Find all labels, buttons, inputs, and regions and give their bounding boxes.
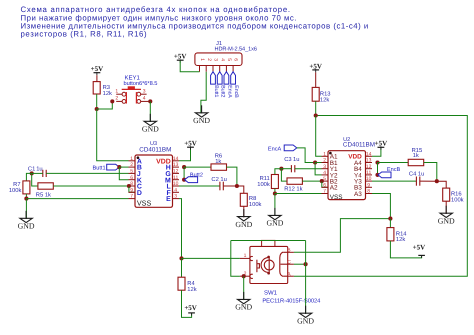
svg-text:HDR-M-2.54_1x6: HDR-M-2.54_1x6 xyxy=(215,47,257,53)
svg-text:C1: C1 xyxy=(28,165,35,172)
wire C4 right xyxy=(420,180,437,182)
wire U3 pin E down to SW1 xyxy=(179,199,182,259)
junction R13/loop/U2-A1 xyxy=(314,113,318,117)
junction SW1 pin2/GND xyxy=(242,274,246,278)
svg-text:12: 12 xyxy=(366,164,372,170)
wire J1 pin2 to ground xyxy=(201,72,206,114)
svg-text:5: 5 xyxy=(226,58,232,61)
wire R7 bottom xyxy=(25,194,27,199)
U2 pin names xyxy=(329,152,332,155)
wire to R5 left xyxy=(32,173,38,186)
svg-text:2: 2 xyxy=(130,162,133,168)
svg-text:4: 4 xyxy=(143,96,146,102)
wire to R14 top xyxy=(389,219,391,228)
wire R11 bottom xyxy=(274,189,276,194)
wire R13 bottom xyxy=(315,101,317,115)
svg-text:+5V: +5V xyxy=(174,53,187,61)
svg-text:C: C xyxy=(287,259,291,265)
svg-text:1u: 1u xyxy=(36,166,42,172)
svg-text:14: 14 xyxy=(366,151,372,157)
wire down to ground xyxy=(25,199,27,219)
wire R8 to ground xyxy=(243,206,245,217)
wire U3 pin L to C2 xyxy=(179,185,220,187)
rotary encoder SW1 xyxy=(250,246,288,283)
KEY1 actuator xyxy=(122,88,141,90)
wire R12 to U2 pin B2 xyxy=(302,180,321,182)
wire R15 to C4 node xyxy=(424,163,437,182)
svg-text:3: 3 xyxy=(323,164,326,170)
resistor R16 xyxy=(443,188,450,201)
IC U3 CD4011BM xyxy=(135,155,173,207)
svg-text:2: 2 xyxy=(323,158,326,164)
wire C1 left xyxy=(32,172,43,174)
svg-text:2: 2 xyxy=(206,58,212,61)
svg-text:3: 3 xyxy=(143,88,146,94)
wire to SW1 pin 1 xyxy=(182,257,240,259)
wire C3 to U2 pin Y1 xyxy=(295,168,322,170)
wire to U3 VSS xyxy=(26,198,128,200)
svg-text:VSS: VSS xyxy=(330,194,343,201)
svg-text:1: 1 xyxy=(115,88,118,94)
svg-text:+5V: +5V xyxy=(413,243,426,251)
wire R6 to C2 node xyxy=(227,167,237,186)
svg-text:GND: GND xyxy=(142,125,159,134)
wire R3 bottom xyxy=(96,94,98,109)
U3 pin stubs xyxy=(129,160,136,162)
svg-text:5: 5 xyxy=(130,169,133,175)
svg-text:Butt1: Butt1 xyxy=(213,85,219,97)
capacitor C1 xyxy=(43,170,46,177)
junction R14/SW1-B/U2-A3 xyxy=(388,217,392,221)
wire tie to U2 pin A2 xyxy=(322,181,328,187)
ground below R16 xyxy=(440,206,452,218)
wire SW1 pin2 to ground xyxy=(243,276,245,300)
svg-text:12: 12 xyxy=(173,169,179,175)
wire U2 Y3 to C4 xyxy=(372,180,416,182)
wire U2 A3 down to R14 node xyxy=(372,194,390,219)
svg-text:GND: GND xyxy=(18,222,35,231)
junction U3 pins C-D tie xyxy=(127,184,131,188)
svg-text:GND: GND xyxy=(193,116,210,125)
svg-text:GND: GND xyxy=(235,303,252,312)
junction U2 Y4 / EncB xyxy=(375,173,379,177)
svg-text:3: 3 xyxy=(174,194,177,200)
resistor R4 xyxy=(178,277,185,290)
wire to R11 top xyxy=(275,169,282,175)
junction SW1 C/GND xyxy=(304,262,308,266)
wire U3 H to R6 xyxy=(184,166,211,168)
svg-text:6: 6 xyxy=(323,182,326,188)
svg-text:2: 2 xyxy=(115,96,118,102)
flag xyxy=(224,72,229,84)
svg-text:10: 10 xyxy=(173,181,179,187)
svg-text:6: 6 xyxy=(233,58,239,61)
wire C3 left xyxy=(281,168,291,170)
ground below R8 xyxy=(238,209,250,221)
svg-text:100k: 100k xyxy=(9,187,22,194)
resistor R12 xyxy=(287,178,302,184)
wire U2 VDD to +5V xyxy=(372,148,381,157)
wire to R7 top xyxy=(26,173,31,181)
wire SW1 C xyxy=(294,263,306,265)
svg-text:EncB: EncB xyxy=(233,85,239,98)
svg-text:12k: 12k xyxy=(320,96,329,103)
resistor R13 xyxy=(312,87,319,101)
svg-text:EncB: EncB xyxy=(387,167,401,173)
svg-text:100k: 100k xyxy=(257,181,270,188)
SW1 internal symbol xyxy=(250,252,288,278)
svg-text:+5V: +5V xyxy=(184,304,197,312)
junction C4/R15/R16 xyxy=(435,179,439,183)
wire to KEY1 pin2 xyxy=(97,101,113,109)
resistor R7 xyxy=(23,181,30,194)
capacitor C2 xyxy=(220,182,223,191)
wire jog to R8 xyxy=(237,186,244,193)
svg-text:1: 1 xyxy=(323,151,326,157)
U3 pin names xyxy=(137,156,140,159)
resistor R5 xyxy=(38,183,53,189)
wire C2 right xyxy=(223,185,237,187)
junction R7/VSS/GND xyxy=(24,197,28,201)
svg-text:8: 8 xyxy=(367,189,370,195)
svg-text:10: 10 xyxy=(366,176,372,182)
svg-text:GND: GND xyxy=(297,316,314,325)
junction U2 pins B2-A2 tie xyxy=(320,179,324,183)
ground below J1 xyxy=(195,105,207,117)
svg-text:резисторов (R1, R8, R11, R16): резисторов (R1, R8, R11, R16) xyxy=(21,30,148,39)
svg-text:R12 1k: R12 1k xyxy=(284,185,302,192)
svg-text:1: 1 xyxy=(244,253,247,259)
wire KEY1 pin4 to ground xyxy=(149,101,151,122)
svg-text:12k: 12k xyxy=(396,236,405,243)
U2 pin stubs xyxy=(322,155,329,157)
wire tie pins H-M xyxy=(183,167,185,180)
wire U3 VDD to +5V xyxy=(179,148,191,161)
wire to U2 VSS xyxy=(275,193,322,195)
svg-text:Butt2: Butt2 xyxy=(190,172,203,178)
svg-text:4: 4 xyxy=(219,58,225,61)
svg-text:R7: R7 xyxy=(13,182,20,188)
svg-text:13: 13 xyxy=(173,162,179,168)
svg-text:C3: C3 xyxy=(284,156,291,163)
flag xyxy=(185,177,198,183)
svg-text:GND: GND xyxy=(438,216,455,225)
svg-text:CD4011BM: CD4011BM xyxy=(139,146,171,153)
svg-text:SW1: SW1 xyxy=(264,290,278,297)
connector J1 xyxy=(195,53,242,66)
resistor R11 xyxy=(271,175,278,189)
wire to R12 left xyxy=(281,169,287,181)
wire R14 to +5V xyxy=(390,241,421,258)
svg-text:C4 1u: C4 1u xyxy=(409,171,424,178)
svg-text:EncA: EncA xyxy=(226,85,232,98)
wire tie to U3 pin D xyxy=(129,186,135,192)
wire jog to R16 xyxy=(437,181,446,188)
svg-text:1: 1 xyxy=(130,156,133,162)
wire down to ground xyxy=(274,194,276,217)
svg-text:1k: 1k xyxy=(413,152,419,159)
SW1 pins xyxy=(240,252,294,276)
svg-text:D: D xyxy=(137,190,142,197)
wire R4 to +5V xyxy=(182,290,192,317)
capacitor C3 xyxy=(291,165,294,172)
resistor R8 xyxy=(240,193,247,206)
wire R5 to U3 pin C xyxy=(53,185,129,187)
ground below KEY1 xyxy=(144,114,156,126)
svg-text:11: 11 xyxy=(173,175,178,181)
wire Butt1 tie to U3 pin K xyxy=(119,167,128,180)
svg-text:12k: 12k xyxy=(187,286,196,293)
wire EncA to U2 B1 xyxy=(297,148,315,163)
flag xyxy=(231,72,236,84)
svg-text:R8: R8 xyxy=(249,195,256,202)
svg-text:100k: 100k xyxy=(249,201,262,208)
svg-text:R3: R3 xyxy=(103,84,110,91)
wire down to R4 xyxy=(181,258,183,277)
flag xyxy=(217,72,222,84)
junction U2 A4 / R15 xyxy=(375,160,379,164)
svg-text:EncA: EncA xyxy=(268,146,282,152)
svg-text:3: 3 xyxy=(213,58,219,61)
ground below SW1 pin2 xyxy=(238,292,250,304)
svg-text:7: 7 xyxy=(130,194,133,200)
svg-text:button6*6*8.5: button6*6*8.5 xyxy=(124,80,158,87)
svg-text:Butt2: Butt2 xyxy=(220,85,226,97)
junction U3 pin M / Butt2 xyxy=(182,178,186,182)
ground below R7 xyxy=(20,211,32,223)
svg-text:1k: 1k xyxy=(215,158,221,165)
resistor R3 xyxy=(93,82,100,94)
svg-text:R5 1k: R5 1k xyxy=(36,191,51,198)
svg-text:GND: GND xyxy=(235,220,252,229)
wire junction down to U3 pin A xyxy=(97,109,129,161)
svg-text:12k: 12k xyxy=(103,90,112,97)
junction SW1 pin1/R4 xyxy=(179,256,183,260)
svg-text:GND: GND xyxy=(266,219,283,228)
junction KEY1 pin2 xyxy=(110,99,114,103)
svg-text:13: 13 xyxy=(366,158,372,164)
junction C2/R6/R8 xyxy=(235,184,239,188)
svg-text:14: 14 xyxy=(173,156,179,162)
wire C1 to U3 pin J xyxy=(46,172,128,174)
svg-text:100k: 100k xyxy=(451,196,464,203)
svg-text:R11: R11 xyxy=(260,176,270,182)
flag xyxy=(211,72,216,84)
J1 pins 1-6 xyxy=(199,66,201,72)
svg-text:9: 9 xyxy=(130,187,133,193)
wire U2 A4 to R15 xyxy=(378,162,409,164)
ground below SW1 C xyxy=(299,306,311,318)
IC U2 CD4011BM xyxy=(328,151,366,200)
svg-text:1: 1 xyxy=(199,58,205,61)
wire J1 pin1 to +5V xyxy=(180,61,199,72)
svg-text:A2: A2 xyxy=(330,185,338,192)
svg-text:E: E xyxy=(166,196,171,203)
wire to U2 pin A1 xyxy=(316,116,322,157)
junction R11/U2 VSS/GND xyxy=(273,191,277,195)
svg-text:C2 1u: C2 1u xyxy=(211,176,226,183)
wire SW1 A loop to R13 xyxy=(294,116,467,277)
svg-text:PEC11R-4015F-S0024: PEC11R-4015F-S0024 xyxy=(262,298,321,305)
svg-text:VSS: VSS xyxy=(137,199,152,208)
svg-text:1u: 1u xyxy=(293,157,299,163)
wire SW1 C to ground xyxy=(305,241,307,314)
wire tie A4-Y4 xyxy=(377,163,379,175)
svg-text:9: 9 xyxy=(367,182,370,188)
flag xyxy=(107,164,120,170)
junction R3/KEY1/U3-A xyxy=(95,107,99,111)
wire R16 to ground xyxy=(445,201,447,214)
wire Butt1 to U3 pin B xyxy=(119,166,128,168)
wire into U2 pin B1 xyxy=(315,162,321,164)
svg-text:R16: R16 xyxy=(451,190,462,197)
flag xyxy=(378,172,391,178)
svg-text:4: 4 xyxy=(174,187,177,193)
wire down to SW1 pin 2 xyxy=(231,241,240,277)
resistor R15 xyxy=(408,159,424,165)
wire shield/top rail xyxy=(231,240,306,242)
wire SW1 B to R14 node xyxy=(294,219,391,253)
flag xyxy=(284,145,297,151)
ground below R11 xyxy=(269,208,281,220)
junction Butt1 tie xyxy=(117,165,121,169)
svg-text:CD4011BM: CD4011BM xyxy=(343,142,375,149)
svg-text:A3: A3 xyxy=(354,191,362,198)
svg-text:Butt1: Butt1 xyxy=(93,166,106,172)
svg-text:4: 4 xyxy=(323,170,326,176)
svg-text:8: 8 xyxy=(130,181,133,187)
svg-text:7: 7 xyxy=(323,189,326,195)
junction U3 pin H / R6 xyxy=(182,165,186,169)
svg-text:11: 11 xyxy=(366,170,371,176)
junction EncA tie xyxy=(313,160,317,164)
svg-text:5: 5 xyxy=(323,176,326,182)
capacitor C4 xyxy=(416,177,419,186)
junction C3/R11/R12 xyxy=(279,167,283,171)
junction C1/R7/R5 xyxy=(30,171,34,175)
wire EncA tie to U2 pin Y2 xyxy=(315,163,321,175)
junction KEY1 pin4 xyxy=(148,99,152,103)
svg-text:6: 6 xyxy=(130,175,133,181)
resistor R14 xyxy=(387,228,394,241)
resistor R6 xyxy=(211,164,227,170)
